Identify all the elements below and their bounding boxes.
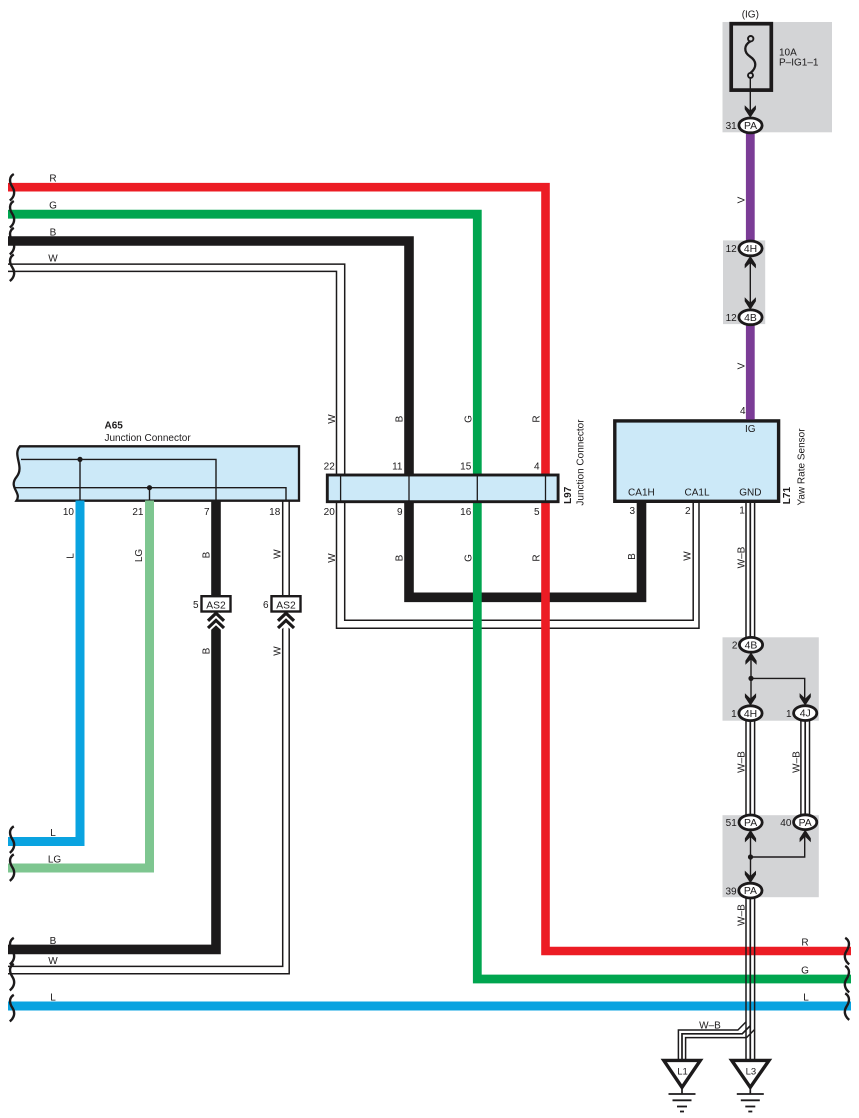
connector box 5 AS2 [202, 596, 231, 611]
svg-text:20: 20 [324, 507, 336, 518]
svg-text:W–B: W–B [737, 751, 748, 773]
pin 12 lower [726, 313, 738, 324]
svg-text:3: 3 [629, 506, 635, 517]
wire label B bottom left [50, 936, 57, 947]
A65 pin 10 [63, 507, 75, 518]
label 4B 12 [744, 313, 757, 324]
junction connector A65 box [14, 446, 299, 500]
svg-text:W: W [327, 414, 338, 424]
arrow out of 51 PA [745, 830, 756, 843]
label L71 [782, 487, 793, 505]
svg-text:5: 5 [193, 600, 199, 611]
wire W-B 39 PA down to ground L3 [746, 898, 755, 1060]
svg-text:LG: LG [134, 549, 145, 563]
svg-text:21: 21 [132, 507, 144, 518]
arrow into 12 4B [745, 297, 756, 310]
label L97 Junction Connector [575, 419, 586, 506]
arrow into 1 4J [800, 693, 811, 706]
wire label G above L97 [463, 415, 474, 423]
wire label W top left [48, 254, 58, 265]
L97 pin 4 [534, 461, 540, 472]
label (IG) [742, 10, 759, 21]
L97 pin 11 [392, 461, 403, 472]
edge break B left [10, 228, 14, 255]
wire label W below L97 [327, 553, 338, 563]
svg-text:L3: L3 [746, 1067, 757, 1078]
svg-text:18: 18 [269, 507, 281, 518]
label L97 [563, 486, 574, 504]
label PA 31 [744, 121, 757, 132]
wire label LG bottom left [48, 855, 62, 866]
arrow into 1 4H [745, 693, 756, 706]
arrow out of 12 4H [745, 256, 756, 269]
pin 2 4B [732, 641, 738, 652]
connector oval 40 PA [794, 815, 817, 830]
connector oval 1 4J [794, 706, 817, 721]
svg-text:W–B: W–B [699, 1020, 721, 1031]
svg-text:W: W [272, 646, 283, 656]
wire label W below AS2 [272, 646, 283, 656]
svg-text:39: 39 [725, 886, 737, 897]
arrow out of 2 4B [745, 652, 756, 665]
edge break W bottom left [10, 964, 14, 991]
wire label W-B left mid [737, 751, 748, 773]
wire link 4H to 4B [749, 262, 751, 303]
svg-text:W: W [48, 956, 58, 967]
pin 39 PA [725, 886, 737, 897]
edge break R right [845, 938, 849, 965]
wire label R above L97 [532, 415, 543, 422]
wire label G below L97 [463, 554, 474, 562]
svg-text:L: L [50, 828, 56, 839]
edge break LG left [10, 854, 14, 881]
wire label W-B right mid [792, 751, 803, 773]
edge break L left [10, 826, 14, 853]
L97 pin 5 [534, 507, 540, 518]
wire label W-B ground branch [699, 1020, 721, 1031]
connector oval 1 4H [739, 706, 762, 721]
svg-text:G: G [801, 965, 809, 976]
svg-text:4B: 4B [744, 313, 757, 324]
wire label V upper [737, 196, 748, 203]
edge break G left [10, 201, 14, 228]
wire LG from A65 pin 21 to left edge [8, 501, 150, 869]
svg-text:R: R [49, 174, 56, 185]
svg-text:W: W [683, 551, 694, 561]
svg-text:W–B: W–B [792, 751, 803, 773]
svg-text:W–B: W–B [737, 546, 748, 568]
svg-text:B: B [627, 553, 638, 560]
wire link 51 PA to 39 PA with junction node to 40 PA [748, 837, 805, 877]
label 4B 2 [745, 640, 758, 651]
L97 pin pass-through B [408, 475, 410, 501]
wire label R bottom right [801, 937, 808, 948]
splice chevrons below 6 AS2 [278, 613, 294, 628]
svg-text:1: 1 [786, 709, 792, 720]
wire B from A65 pin 7 to left edge bottom [8, 501, 216, 950]
L97 pin pass-through W [340, 475, 342, 501]
svg-text:CA1L: CA1L [684, 487, 709, 498]
label PA 39 [744, 886, 757, 897]
svg-text:51: 51 [726, 818, 738, 829]
arrow out of 40 PA [800, 830, 811, 843]
wire link 4B to 4H/4J with junction node [748, 657, 804, 699]
svg-text:PA: PA [744, 818, 757, 829]
edge break L right [845, 993, 849, 1020]
svg-text:12: 12 [726, 244, 738, 255]
L97 pin 16 [460, 507, 472, 518]
junction connector L97 bar [327, 475, 558, 502]
wire label L below A65 [66, 553, 77, 559]
connector oval 51 PA [739, 815, 762, 830]
L97 pin 20 [324, 507, 336, 518]
label 4H 12 [744, 244, 757, 255]
svg-text:L71: L71 [782, 487, 793, 505]
svg-text:22: 22 [324, 461, 336, 472]
edge break L bottom left [10, 995, 14, 1022]
arrow into 39 PA [745, 871, 756, 884]
wire R from left edge through L97 to right edge [8, 187, 851, 951]
L97 pin pass-through R [545, 475, 547, 501]
svg-text:AS2: AS2 [276, 600, 296, 611]
wire W-B 4H to 51 PA [746, 720, 755, 815]
svg-text:Yaw Rate Sensor: Yaw Rate Sensor [797, 428, 808, 506]
svg-text:L97: L97 [563, 486, 574, 504]
sensor pin 1 [739, 506, 745, 517]
edge break W left [10, 255, 14, 282]
svg-text:5: 5 [534, 507, 540, 518]
svg-text:B: B [50, 936, 57, 947]
label 4H 1 [744, 709, 757, 720]
svg-text:B: B [395, 415, 406, 422]
svg-text:W–B: W–B [737, 904, 748, 926]
wire label W below A65 [272, 549, 283, 559]
svg-text:W: W [327, 553, 338, 563]
A65 internal busbar pins 21-18 [14, 485, 286, 500]
svg-text:P–IG1–1: P–IG1–1 [779, 58, 819, 69]
wire label R below L97 [532, 554, 543, 561]
svg-text:12: 12 [726, 313, 738, 324]
wire label LG below A65 [134, 549, 145, 563]
label PA 40 [799, 818, 812, 829]
pin 4 sensor IG [740, 406, 746, 417]
edge break G right [845, 966, 849, 993]
wire label G top left [49, 201, 57, 212]
edge break B bottom left [10, 938, 14, 965]
svg-text:W: W [272, 549, 283, 559]
svg-text:L: L [803, 992, 809, 1003]
wire label B sensor leg [627, 553, 638, 560]
wire W from A65 pin 18 to left edge bottom [8, 501, 289, 974]
wire label B below L97 [395, 554, 406, 561]
wire label B top left [50, 228, 57, 239]
svg-text:A65: A65 [105, 421, 124, 432]
pin 5 AS2 [193, 600, 199, 611]
wire label G bottom right [801, 965, 809, 976]
svg-text:4: 4 [740, 406, 746, 417]
wire W from left edge through L97 to sensor CA1L [8, 264, 699, 628]
svg-text:15: 15 [460, 461, 472, 472]
svg-text:2: 2 [732, 641, 738, 652]
wire V 4B to sensor IG [746, 325, 755, 420]
wire label W bottom left [48, 956, 58, 967]
wire label W-B sensor GND leg [737, 546, 748, 568]
A65 pin 7 [204, 507, 210, 518]
wire L from A65 pin 10 to left edge [8, 501, 80, 842]
fuse element symbol [745, 36, 755, 78]
sensor pin label CA1H [628, 487, 655, 498]
wire V fuse to 4H [746, 133, 755, 242]
svg-text:4J: 4J [800, 709, 811, 720]
svg-text:1: 1 [731, 709, 737, 720]
L97 pin 15 [460, 461, 472, 472]
wire label L bottom left [50, 828, 56, 839]
wire label W-B above R crossing [737, 904, 748, 926]
A65 pin 21 [132, 507, 144, 518]
wire label B above L97 [395, 415, 406, 422]
connector oval 2 4B [739, 637, 762, 652]
wire label V lower [737, 362, 748, 369]
svg-text:L: L [50, 992, 56, 1003]
svg-text:GND: GND [739, 487, 761, 498]
sensor pin label IG [745, 424, 756, 435]
pin 6 AS2 [263, 600, 269, 611]
svg-text:6: 6 [263, 600, 269, 611]
label AS2 right [276, 600, 296, 611]
wire label L bottom right [803, 992, 809, 1003]
svg-text:PA: PA [744, 121, 757, 132]
svg-text:4B: 4B [745, 640, 758, 651]
svg-text:Junction Connector: Junction Connector [575, 419, 586, 506]
svg-text:7: 7 [204, 507, 210, 518]
svg-text:(IG): (IG) [742, 10, 759, 21]
wire label B below A65 [202, 551, 213, 558]
sensor pin label CA1L [684, 487, 709, 498]
svg-text:2: 2 [685, 506, 691, 517]
shading block fuse area [723, 22, 833, 132]
ground label L1 [677, 1067, 688, 1078]
svg-text:IG: IG [745, 424, 756, 435]
wire W-B sensor GND to 4B [746, 502, 755, 638]
svg-text:40: 40 [780, 818, 792, 829]
pin 40 PA [780, 818, 792, 829]
sensor pin 3 [629, 506, 635, 517]
connector oval 39 PA [739, 883, 762, 898]
fuse 10A P-IG1-1 box [731, 24, 771, 90]
svg-text:4: 4 [534, 461, 540, 472]
label A65 Junction Connector [105, 433, 192, 444]
svg-text:B: B [50, 228, 57, 239]
connector box 6 AS2 [272, 596, 301, 611]
svg-text:G: G [463, 415, 474, 423]
ground L3 [732, 1060, 769, 1111]
A65 internal busbar pins 10-7 [21, 457, 216, 500]
svg-text:R: R [532, 554, 543, 561]
svg-text:1: 1 [739, 506, 745, 517]
svg-text:Junction Connector: Junction Connector [105, 433, 192, 444]
svg-text:G: G [463, 554, 474, 562]
wire label W sensor leg [683, 551, 694, 561]
svg-text:4H: 4H [744, 244, 757, 255]
edge break R left [10, 174, 14, 201]
svg-text:PA: PA [744, 886, 757, 897]
svg-text:B: B [202, 551, 213, 558]
label A65 [105, 421, 124, 432]
ground label L3 [746, 1067, 757, 1078]
label Yaw Rate Sensor [797, 428, 808, 506]
svg-text:11: 11 [392, 461, 403, 472]
shading block PA junction [723, 815, 819, 897]
pin 31 [726, 121, 738, 132]
svg-text:PA: PA [799, 818, 812, 829]
A65 pin 18 [269, 507, 281, 518]
svg-text:V: V [737, 362, 748, 369]
svg-text:G: G [49, 201, 57, 212]
label 4J 1 [800, 709, 811, 720]
svg-text:R: R [801, 937, 808, 948]
connector oval 12 4B [739, 310, 762, 325]
pin 51 PA [726, 818, 738, 829]
wire fuse lead to 31 PA [749, 79, 751, 114]
shading block 4B/4H/4J junction [723, 637, 819, 720]
connector oval 12 4H [739, 241, 762, 256]
pin 1 4H [731, 709, 737, 720]
svg-text:AS2: AS2 [206, 600, 226, 611]
svg-text:16: 16 [460, 507, 472, 518]
svg-text:CA1H: CA1H [628, 487, 655, 498]
wire W-B 4J to 40 PA [801, 720, 810, 815]
svg-text:10: 10 [63, 507, 75, 518]
svg-text:V: V [737, 196, 748, 203]
wire B from left edge through L97 to sensor CA1H [8, 241, 642, 597]
L97 pin pass-through G [476, 475, 478, 501]
yaw rate sensor L71 box [615, 421, 779, 501]
L97 pin 22 [324, 461, 336, 472]
L97 pin 9 [397, 507, 403, 518]
ground L1 [664, 1060, 701, 1111]
sensor pin 2 [685, 506, 691, 517]
wire label B below AS2 [202, 647, 213, 654]
wire G from left edge through L97 to right edge [8, 214, 851, 979]
svg-text:B: B [395, 554, 406, 561]
wire L bottom full width [8, 1002, 851, 1011]
svg-text:R: R [532, 415, 543, 422]
svg-text:B: B [202, 647, 213, 654]
wire label W above L97 [327, 414, 338, 424]
pin 12 upper [726, 244, 738, 255]
sensor pin label GND [739, 487, 761, 498]
svg-text:LG: LG [48, 855, 62, 866]
wire label R top left [49, 174, 56, 185]
wire label L bottom left low [50, 992, 56, 1003]
svg-text:31: 31 [726, 121, 738, 132]
splice chevrons below 5 AS2 [208, 613, 224, 628]
label PA 51 [744, 818, 757, 829]
svg-text:L: L [66, 553, 77, 559]
label 10A P-IG1-1 [779, 48, 819, 69]
svg-text:9: 9 [397, 507, 403, 518]
svg-text:L1: L1 [677, 1067, 688, 1078]
svg-text:W: W [48, 254, 58, 265]
connector oval 31 PA [739, 118, 762, 133]
arrow into 31 PA [745, 105, 756, 118]
svg-text:4H: 4H [744, 709, 757, 720]
label AS2 left [206, 600, 226, 611]
wire W-B branch to ground L1 [678, 1022, 754, 1060]
shading block 4H/4B junction [723, 240, 765, 324]
pin 1 4J [786, 709, 792, 720]
